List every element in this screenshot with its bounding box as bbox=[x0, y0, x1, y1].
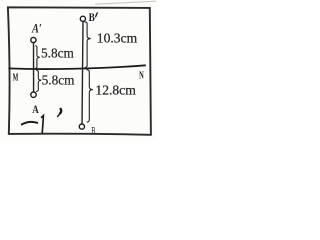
handwritten dash mark bottom-left bbox=[22, 122, 37, 125]
svg-text:A: A bbox=[32, 104, 39, 116]
faint scan streak top-right bbox=[95, 1, 156, 4]
border frame of figure bbox=[8, 7, 151, 135]
handwritten bar mark bottom-left bbox=[42, 116, 44, 134]
brace upper-right 10.3cm bbox=[85, 22, 91, 68]
svg-text:10.3cm: 10.3cm bbox=[97, 31, 138, 46]
svg-text:N: N bbox=[139, 69, 144, 81]
svg-text:5.8cm: 5.8cm bbox=[42, 72, 76, 87]
brace lower-left 5.8cm bbox=[36, 70, 41, 92]
brace lower-right 12.8cm bbox=[86, 70, 93, 123]
svg-text:B: B bbox=[89, 11, 95, 24]
svg-text:M: M bbox=[13, 70, 19, 82]
image line B'B bbox=[82, 22, 83, 124]
svg-text:12.8cm: 12.8cm bbox=[95, 83, 136, 98]
prime tick of B label bbox=[96, 13, 98, 17]
svg-text:B: B bbox=[91, 124, 95, 138]
point B circle bbox=[79, 124, 84, 129]
svg-text:5.8cm: 5.8cm bbox=[41, 46, 75, 61]
object line A'A bbox=[33, 43, 35, 92]
point A' circle bbox=[31, 37, 36, 42]
brace upper-left 5.8cm bbox=[35, 46, 40, 69]
point A circle bbox=[31, 92, 36, 97]
mirror line MN bbox=[8, 65, 145, 69]
point B' circle bbox=[80, 16, 85, 21]
handwritten comma mark bbox=[58, 109, 62, 117]
svg-text:A′: A′ bbox=[31, 22, 42, 36]
